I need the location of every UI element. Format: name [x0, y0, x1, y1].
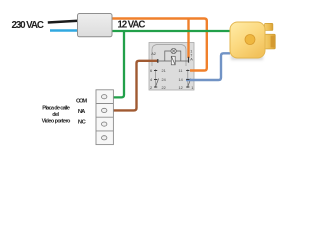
svg-text:del: del [52, 112, 59, 118]
svg-text:24: 24 [162, 78, 166, 82]
svg-text:Placa de calle: Placa de calle [42, 105, 70, 111]
svg-text:COM: COM [76, 98, 87, 104]
svg-text:14: 14 [179, 78, 183, 82]
svg-text:12: 12 [179, 86, 183, 90]
svg-text:NA: NA [78, 109, 86, 115]
svg-text:2: 2 [150, 86, 152, 90]
svg-text:NC: NC [78, 119, 87, 125]
svg-text:11: 11 [179, 69, 183, 73]
svg-text:21: 21 [162, 69, 166, 73]
svg-text:A: A [190, 58, 193, 62]
svg-text:4: 4 [150, 78, 152, 82]
svg-text:1: 1 [191, 86, 193, 90]
svg-text:230 VAC: 230 VAC [12, 20, 44, 31]
svg-text:22: 22 [162, 86, 166, 90]
svg-text:A2: A2 [151, 52, 156, 56]
svg-text:6: 6 [150, 69, 152, 73]
svg-text:Video portero: Video portero [42, 119, 71, 125]
svg-text:12 VAC: 12 VAC [117, 20, 145, 31]
